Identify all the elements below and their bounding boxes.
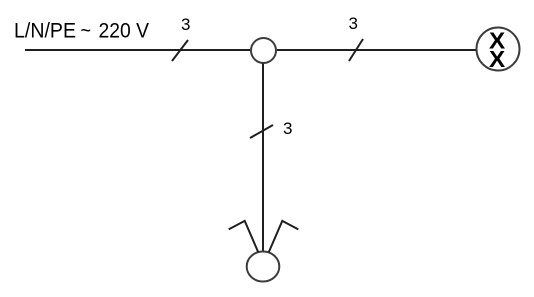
wire: horizontal segment junction to lamp bbox=[277, 49, 477, 51]
conductor-count slash on switch wire bbox=[250, 125, 273, 138]
wire: vertical segment junction to switch bbox=[262, 64, 264, 253]
switch S1 left actuator arm with end tick bbox=[229, 221, 259, 252]
switch S1 right actuator arm with end tick bbox=[269, 221, 299, 252]
svg-text:X: X bbox=[489, 46, 506, 72]
node: junction circle bbox=[251, 38, 276, 63]
svg-text:3: 3 bbox=[349, 14, 358, 33]
svg-text:~: ~ bbox=[81, 20, 92, 43]
svg-text:3: 3 bbox=[283, 119, 292, 138]
lamp E1: luminaire with two lamp groups bbox=[477, 28, 520, 72]
conductor-count slash on lamp wire bbox=[349, 39, 363, 61]
svg-text:L/N/PE: L/N/PE bbox=[14, 20, 76, 43]
net label L/N/PE ~ 220 V bbox=[14, 20, 149, 43]
svg-text:220 V: 220 V bbox=[99, 20, 150, 43]
wire: supply feed horizontal segment bbox=[25, 49, 252, 51]
conductor-count slash on feed wire bbox=[172, 40, 188, 61]
svg-text:3: 3 bbox=[181, 15, 190, 34]
switch S1: series switch (two-gang), circle body bbox=[247, 252, 280, 282]
